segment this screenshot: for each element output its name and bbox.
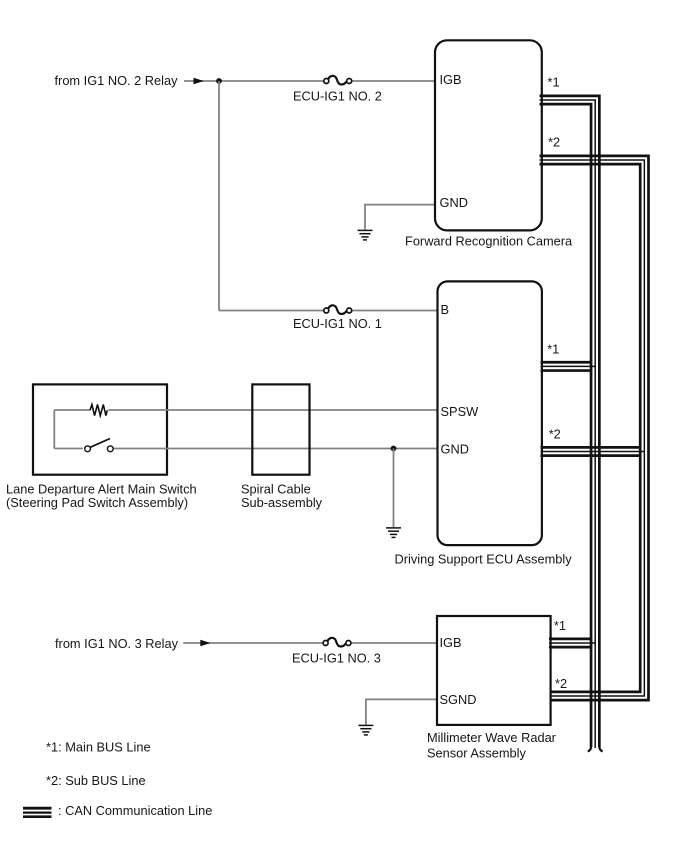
resistor (lane departure alert main switch) [90, 405, 107, 416]
wire: radar SGND to ground [366, 699, 438, 724]
symbol: CAN communication line legend [23, 808, 52, 817]
wire: camera GND to ground [365, 205, 434, 230]
svg-text:from IG1 NO. 2 Relay: from IG1 NO. 2 Relay [55, 73, 179, 88]
svg-text:*1: *1 [547, 342, 559, 357]
ground: forward recognition camera GND [358, 230, 373, 240]
svg-text:Sub-assembly: Sub-assembly [241, 495, 323, 510]
svg-text:IGB: IGB [440, 72, 462, 87]
ground: driving support ECU GND [386, 528, 401, 538]
fuse ECU-IG1 NO. 2 [324, 76, 352, 85]
fuse ECU-IG1 NO. 3 [323, 638, 351, 647]
svg-text:B: B [441, 302, 450, 317]
wire: ECU B feed [219, 310, 438, 312]
CAN bus: camera *2 to sub bus vertical (V2) down to radar *2 [540, 156, 649, 700]
svg-text:ECU-IG1 NO. 2: ECU-IG1 NO. 2 [293, 89, 382, 104]
fuse ECU-IG1 NO. 1 [324, 305, 352, 314]
svg-text:ECU-IG1 NO. 1: ECU-IG1 NO. 1 [293, 316, 382, 331]
svg-text:: CAN Communication Line: : CAN Communication Line [58, 803, 212, 818]
wire: SPSW line through resistor to ECU [54, 410, 438, 449]
wire: vertical branch from IG1 NO.2 junction to ECU B line [218, 81, 220, 311]
wire: from IG1 NO.3 relay feed to radar IGB [183, 642, 438, 644]
arrow: IG1 NO.3 relay direction [200, 640, 210, 646]
ground: millimeter wave radar SGND [358, 725, 373, 735]
svg-text:*2: *2 [549, 427, 561, 442]
node: junction IG1 NO.2 branch [216, 78, 222, 84]
component: Spiral Cable Sub-assembly box [252, 384, 309, 474]
component: Millimeter Wave Radar Sensor Assembly box [437, 616, 551, 725]
svg-text:(Steering Pad Switch Assembly): (Steering Pad Switch Assembly) [6, 495, 188, 510]
svg-text:IGB: IGB [440, 635, 462, 650]
svg-text:Forward Recognition Camera: Forward Recognition Camera [405, 234, 573, 249]
svg-text:Driving Support ECU Assembly: Driving Support ECU Assembly [395, 552, 573, 567]
wire: from IG1 NO.2 relay feed to camera IGB [184, 80, 434, 82]
svg-text:Millimeter Wave Radar: Millimeter Wave Radar [427, 730, 557, 745]
wire: ECU GND to ground [393, 449, 395, 528]
svg-text:*1: *1 [548, 75, 560, 90]
svg-text:Sensor Assembly: Sensor Assembly [427, 746, 526, 761]
arrow: IG1 NO.2 relay direction [194, 78, 204, 84]
svg-text:from IG1 NO. 3 Relay: from IG1 NO. 3 Relay [55, 636, 179, 651]
component: Forward Recognition Camera box [435, 40, 542, 230]
component: Driving Support ECU Assembly box [438, 281, 542, 545]
CAN bus: radar *1 branch to main bus V1 [549, 639, 596, 647]
svg-text:SGND: SGND [440, 692, 477, 707]
svg-text:GND: GND [441, 442, 469, 457]
svg-text:SPSW: SPSW [441, 404, 480, 419]
node: junction ECU GND / ground branch [391, 446, 397, 452]
svg-text:*2: *2 [555, 676, 567, 691]
CAN bus: ECU *2 branch to sub bus V2 [541, 447, 646, 455]
svg-text:*2: Sub BUS Line: *2: Sub BUS Line [46, 773, 146, 788]
switch: lane departure alert main switch contacts [85, 439, 114, 452]
svg-text:*1: Main BUS Line: *1: Main BUS Line [46, 740, 151, 755]
component: Lane Departure Alert Main Switch box [33, 384, 167, 474]
svg-text:*2: *2 [548, 135, 560, 150]
CAN bus: ECU *1 branch to main bus V1 [541, 362, 596, 370]
svg-text:*1: *1 [554, 618, 566, 633]
wire: switch line to ECU GND [54, 448, 438, 450]
CAN bus: camera *1 to main bus vertical (V1), down to free end [540, 96, 603, 752]
svg-text:ECU-IG1 NO. 3: ECU-IG1 NO. 3 [292, 651, 381, 666]
svg-text:GND: GND [440, 195, 468, 210]
